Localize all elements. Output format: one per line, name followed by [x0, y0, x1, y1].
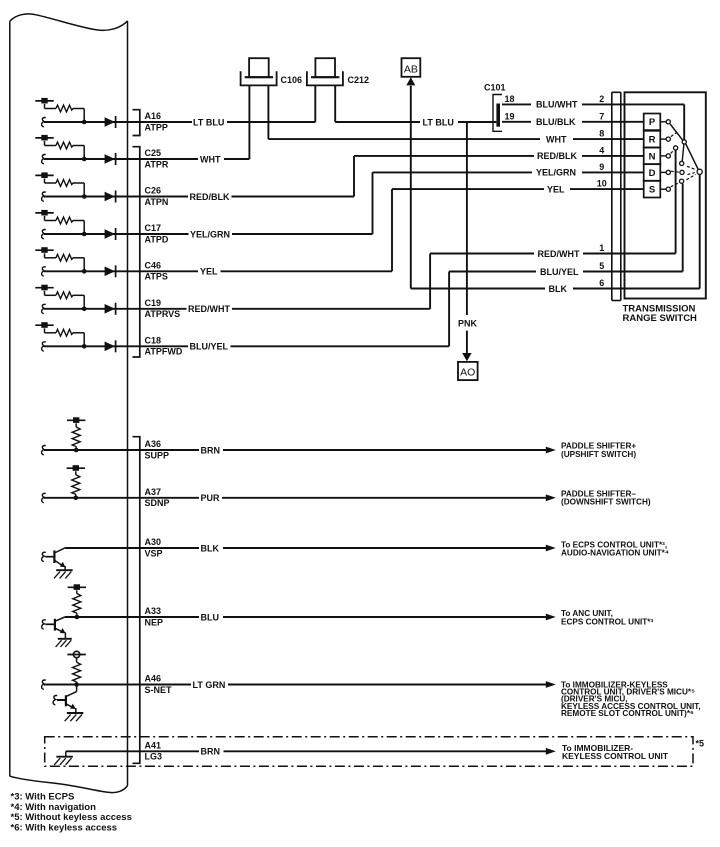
- power tab (internal pull-up supply, C46 row): [35, 249, 53, 251]
- wire BLU/BLK segment to pin 7: [582, 121, 644, 123]
- lead wire-collector (A46): [76, 685, 78, 692]
- power tab (internal pull-up supply, A16 row): [35, 100, 53, 102]
- svg-text:C19: C19: [145, 298, 162, 308]
- wire LT BLU (label to C101): [458, 121, 496, 123]
- junction dot (C18 row): [82, 344, 87, 349]
- svg-text:ECPS CONTROL UNIT*³: ECPS CONTROL UNIT*³: [561, 617, 653, 626]
- off-page connector AO box: [458, 362, 478, 380]
- svg-text:VSP: VSP: [145, 548, 163, 558]
- svg-text:SUPP: SUPP: [145, 450, 170, 460]
- wire C46 row inside ECU (squiggle continuation): [42, 267, 46, 276]
- range switch connector strip: [611, 92, 613, 300]
- lead from power tab to resistor (C19 row): [44, 291, 46, 296]
- svg-text:*6: With keyless access: *6: With keyless access: [11, 823, 118, 834]
- svg-text:YEL: YEL: [547, 184, 565, 194]
- resistor (pull-up, C17 row): [56, 217, 73, 224]
- ground (A30 emitter): [56, 569, 73, 571]
- lead resistor-wire (A36): [75, 447, 77, 448]
- wire C26 ATPN (label to riser): [232, 196, 355, 198]
- wire A30 VSP (label to arrow): [223, 547, 547, 549]
- wire PNK tee from LT BLU down: [466, 122, 468, 315]
- svg-text:KEYLESS CONTROL UNIT: KEYLESS CONTROL UNIT: [562, 751, 669, 761]
- svg-text:BLU/YEL: BLU/YEL: [540, 267, 579, 277]
- power tab (internal pull-up supply, C26 row): [35, 174, 53, 176]
- wire A37 squiggle: [42, 493, 46, 502]
- power tab (internal pull-up supply, C25 row): [35, 137, 53, 139]
- power tab (A37 row): [67, 467, 85, 469]
- lead from power tab to resistor (C26 row): [44, 179, 46, 184]
- alternate position dashes (N): [671, 150, 674, 153]
- ground (A33 emitter): [58, 638, 72, 640]
- svg-text:A36: A36: [145, 439, 162, 449]
- svg-text:N: N: [649, 151, 656, 162]
- wire C25 row inside ECU (squiggle continuation): [42, 155, 46, 164]
- wire C19 row inside ECU (squiggle continuation): [42, 304, 46, 313]
- contact circle N: [666, 154, 670, 158]
- svg-text:ATPD: ATPD: [145, 234, 169, 244]
- connector C106 left leg (WHT wire up): [248, 85, 250, 159]
- arrowhead (A37 row): [546, 494, 556, 501]
- wire PNK (label to arrow): [466, 331, 468, 354]
- range switch position box N: [644, 148, 661, 165]
- svg-text:BLU/YEL: BLU/YEL: [190, 342, 229, 352]
- resistor (A37 pull-up): [72, 475, 80, 495]
- range switch position box S: [644, 181, 661, 198]
- wire C19 ATPRVS (ECU to label): [44, 308, 187, 310]
- svg-text:5: 5: [599, 261, 604, 271]
- svg-text:RANGE SWITCH: RANGE SWITCH: [623, 313, 698, 324]
- junction dot (A33): [75, 615, 80, 620]
- lead from power tab to resistor (A16 row): [44, 104, 46, 109]
- power tab (internal pull-up supply, C19 row): [35, 287, 53, 289]
- alternate position dashes (S): [671, 183, 680, 187]
- svg-text:ATPS: ATPS: [145, 272, 168, 282]
- transistor Q (A46) emitter: [66, 704, 73, 708]
- transistor Q (A30) base bar: [53, 550, 55, 563]
- contact circle R: [666, 137, 670, 141]
- svg-text:(UPSHIFT SWITCH): (UPSHIFT SWITCH): [561, 450, 636, 459]
- svg-text:AB: AB: [404, 64, 418, 76]
- wire pin 5 riser inside switch: [682, 184, 684, 272]
- wire A46 base squiggle: [53, 696, 57, 705]
- svg-text:19: 19: [505, 111, 515, 121]
- transistor Q (A33) emitter: [55, 628, 63, 632]
- transistor Q (A33) collector: [55, 617, 65, 621]
- alternate position dashes (D): [671, 171, 679, 172]
- resistor (pull-up, C19 row): [56, 292, 73, 299]
- resistor (A46 pull-up): [73, 662, 81, 682]
- wire C17 row inside ECU (squiggle continuation): [42, 230, 46, 239]
- svg-text:BLK: BLK: [201, 543, 220, 553]
- transistor base lead (A33): [46, 623, 55, 625]
- svg-text:(DOWNSHIFT SWITCH): (DOWNSHIFT SWITCH): [561, 498, 651, 507]
- contact stub R: [660, 138, 666, 140]
- svg-text:RED/BLK: RED/BLK: [190, 192, 230, 202]
- contact stub P: [660, 121, 666, 123]
- arrowhead (A46 row): [546, 681, 556, 688]
- lead tab-resistor (A37): [75, 471, 77, 475]
- lead from power tab to resistor (C18 row): [44, 328, 46, 333]
- wire A33 squiggle: [42, 620, 46, 629]
- wire A30 VSP (ECU to label): [65, 547, 199, 549]
- option box (without keyless access) dash-dot border: [45, 737, 693, 767]
- wire A41 LG3 (ECU to label): [66, 750, 199, 752]
- transistor Q (A46) base bar: [65, 695, 67, 706]
- ECU / harness band top wavy edge: [10, 14, 128, 30]
- resistor (pull-up, C26 row): [56, 180, 73, 187]
- svg-text:A37: A37: [145, 487, 162, 497]
- switch arm drop link: [682, 144, 684, 161]
- wire BLK riser to AB connector: [410, 86, 412, 289]
- resistor (pull-up, A16 row): [56, 105, 73, 112]
- ECU pin bracket C25..C18: [133, 147, 140, 357]
- wire C18 row inside ECU (squiggle continuation): [42, 342, 46, 351]
- svg-text:C17: C17: [145, 223, 162, 233]
- svg-text:BLU/WHT: BLU/WHT: [536, 100, 578, 110]
- wire riser RED/BLK (C26 to pin 4): [353, 156, 355, 197]
- transistor base lead (A30): [46, 556, 55, 558]
- svg-text:RED/WHT: RED/WHT: [188, 304, 230, 314]
- wire BLK segment to pin 6: [573, 288, 700, 290]
- wire riser YEL/GRN (C17 to pin 9): [372, 172, 374, 234]
- sensor tab circle (A46 row): [67, 654, 85, 656]
- wire YEL segment to pin 10: [570, 188, 644, 190]
- lead emitter-ground (A33): [64, 632, 66, 638]
- svg-text:LT BLU: LT BLU: [193, 117, 224, 127]
- transmission range switch case: [625, 92, 706, 298]
- junction dot (A16 row): [82, 120, 87, 125]
- contact circle D: [666, 170, 670, 174]
- svg-text:ATPN: ATPN: [145, 197, 169, 207]
- lead from resistor to wire junction (C19 row): [73, 294, 84, 296]
- ECU pin bracket A36..A41: [133, 437, 140, 764]
- wire RED/WHT segment to pin 1: [583, 253, 676, 255]
- junction dot (C17 row): [82, 232, 87, 237]
- svg-text:7: 7: [599, 111, 604, 121]
- power tab (internal pull-up supply, C18 row): [35, 324, 53, 326]
- svg-text:NEP: NEP: [145, 617, 164, 627]
- range switch position box D: [644, 164, 661, 181]
- svg-text:8: 8: [599, 129, 604, 139]
- svg-text:LT BLU: LT BLU: [423, 117, 454, 127]
- transistor Q (A30) emitter: [54, 560, 62, 565]
- wire C25 ATPR (label to riser): [224, 158, 249, 160]
- lead from power tab to resistor (C17 row): [44, 216, 46, 221]
- arrowhead to AO: [462, 353, 471, 361]
- wire riser BLU/YEL (C18 to pin 5): [448, 272, 450, 347]
- wire C18 ATPFWD (label to riser): [231, 345, 450, 347]
- wire BLK segment to pin 6: [411, 288, 545, 290]
- svg-text:R: R: [649, 135, 656, 146]
- common contact circle (pin 6): [697, 169, 702, 174]
- wire C46 ATPS (ECU to label): [44, 270, 198, 272]
- wire A33 NEP (ECU to label): [65, 616, 199, 618]
- svg-text:BLU: BLU: [201, 612, 220, 622]
- wire YEL/GRN segment to pin 9: [582, 171, 644, 173]
- svg-text:BRN: BRN: [201, 445, 221, 455]
- junction dot (A46): [74, 682, 79, 687]
- wire A37 SDNP (ECU to label): [44, 497, 199, 499]
- svg-text:BLK: BLK: [549, 284, 568, 294]
- svg-text:A46: A46: [145, 674, 162, 684]
- arrowhead to AB: [406, 77, 415, 85]
- contact circle (D-row tap): [680, 170, 684, 174]
- ECU / harness band bottom wavy edge: [10, 776, 128, 792]
- lead from resistor to wire junction (C18 row): [73, 332, 84, 334]
- power tab (A36 row): [67, 419, 85, 421]
- wire BLU/WHT segment to pin 2: [582, 103, 684, 105]
- alternate position dashes (R): [671, 131, 679, 137]
- svg-text:PNK: PNK: [458, 319, 478, 329]
- diode (A16 row): [105, 117, 115, 127]
- contact circle (row 1 tap): [674, 146, 678, 150]
- svg-text:A41: A41: [145, 740, 162, 750]
- lead from power tab to resistor (C25 row): [44, 141, 46, 146]
- junction dot (A36): [74, 448, 79, 453]
- alternate arm dash fan 1: [687, 166, 696, 170]
- lead wire-ground (A41): [65, 751, 67, 756]
- wire BLU/WHT segment to pin 2: [502, 103, 531, 105]
- junction dot (C19 row): [82, 307, 87, 312]
- lead resistor-wire (A46): [76, 682, 78, 683]
- wire pin 1 riser inside switch: [675, 150, 677, 253]
- arrowhead (A41 row): [546, 748, 556, 755]
- wire riser YEL (C46 to pin 10): [391, 189, 393, 271]
- svg-text:BLU/BLK: BLU/BLK: [536, 117, 576, 127]
- svg-text:WHT: WHT: [546, 134, 567, 144]
- wire RED/BLK segment to pin 4: [354, 155, 534, 157]
- lead emitter-ground (A46): [75, 708, 77, 713]
- svg-text:A30: A30: [145, 537, 162, 547]
- svg-text:C25: C25: [145, 148, 162, 158]
- arrowhead (A30 row): [546, 545, 556, 552]
- ground (A46 emitter): [67, 712, 84, 714]
- lead resistor-wire (A33): [76, 613, 78, 615]
- diode (C25 row): [105, 154, 115, 164]
- svg-text:6: 6: [599, 278, 604, 288]
- connector C212 symbol: [315, 58, 335, 77]
- diode (C19 row): [105, 304, 115, 314]
- junction dot (C25 row): [82, 157, 87, 162]
- alternate arm dash fan 2: [688, 173, 695, 175]
- power tab (internal pull-up supply, C17 row): [35, 212, 53, 214]
- svg-text:YEL/GRN: YEL/GRN: [190, 229, 230, 239]
- connector C101 bracket: [493, 95, 502, 132]
- wire LT BLU (C212 to label): [335, 121, 420, 123]
- svg-text:A33: A33: [145, 606, 162, 616]
- connector C106 right leg (WHT wire down): [267, 85, 269, 139]
- lead circle-resistor (A46): [76, 658, 78, 663]
- wire BLU/YEL segment to pin 5: [583, 271, 683, 273]
- wire WHT segment to pin 8: [573, 138, 644, 140]
- ECU pin bracket A16: [133, 110, 140, 136]
- connector C101 terminal bar: [496, 104, 500, 127]
- resistor (pull-up, C18 row): [56, 329, 73, 336]
- resistor (A33 pull-up): [73, 594, 81, 614]
- wire A41 LG3 (label to arrow): [224, 750, 547, 752]
- wire RED/BLK segment to pin 4: [582, 155, 644, 157]
- junction dot (A37): [74, 496, 79, 501]
- wire C17 ATPD (label to riser): [232, 233, 373, 235]
- svg-text:BRN: BRN: [201, 747, 221, 757]
- wire A16 row inside ECU (squiggle continuation): [42, 118, 46, 127]
- contact stub D: [660, 171, 666, 173]
- connector C212 left leg (LT BLU wire up): [314, 85, 316, 122]
- svg-text:AUDIO-NAVIGATION UNIT*⁴: AUDIO-NAVIGATION UNIT*⁴: [561, 549, 669, 558]
- svg-text:P: P: [649, 117, 656, 128]
- svg-text:YEL: YEL: [200, 267, 218, 277]
- wire A46 S-NET (label to arrow): [228, 684, 547, 686]
- svg-text:LT GRN: LT GRN: [193, 680, 226, 690]
- wire C26 ATPN (ECU to label): [44, 196, 188, 198]
- power tab (A33 row): [68, 586, 86, 588]
- contact stub N: [660, 155, 666, 157]
- svg-text:10: 10: [597, 179, 607, 189]
- lead emitter-ground (A30): [64, 566, 66, 570]
- arrowhead (A36 row): [546, 447, 556, 454]
- switch arm pivot contact: [682, 140, 686, 144]
- off-page connector AB box: [402, 58, 421, 77]
- wire A46 S-NET (ECU to label): [44, 684, 191, 686]
- contact circle (mid tap): [680, 161, 684, 165]
- svg-text:PUR: PUR: [201, 493, 221, 503]
- svg-text:C26: C26: [145, 186, 162, 196]
- wire C19 ATPRVS (label to riser): [232, 308, 430, 310]
- wire A16 ATPP (label to riser): [227, 121, 315, 123]
- alternate arm dash fan 3: [687, 174, 696, 179]
- wire A46 squiggle: [42, 680, 46, 689]
- range switch position box R: [644, 131, 661, 148]
- range switch position box P: [644, 114, 661, 131]
- wire YEL/GRN segment to pin 9: [373, 171, 533, 173]
- svg-text:S-NET: S-NET: [145, 685, 173, 695]
- lead from resistor to wire junction (A16 row): [73, 108, 84, 110]
- lead tab-resistor (A33): [76, 590, 78, 593]
- svg-text:1: 1: [599, 243, 604, 253]
- wire C46 ATPS (label to riser): [221, 270, 393, 272]
- svg-text:S: S: [649, 185, 655, 196]
- svg-text:C46: C46: [145, 260, 162, 270]
- contact circle S: [666, 187, 670, 191]
- svg-text:AO: AO: [460, 366, 475, 378]
- wire C17 ATPD (ECU to label): [44, 233, 189, 235]
- svg-text:2: 2: [599, 94, 604, 104]
- wire A36 SUPP (ECU to label): [44, 449, 199, 451]
- svg-text:D: D: [649, 168, 656, 179]
- ECU / harness band left torn edge: [9, 21, 11, 776]
- svg-text:RED/WHT: RED/WHT: [538, 249, 580, 259]
- resistor (A36 pull-up): [72, 427, 80, 447]
- svg-text:ATPFWD: ATPFWD: [145, 347, 183, 357]
- lead from resistor to wire junction (C26 row): [73, 182, 84, 184]
- diode (C17 row): [105, 229, 115, 239]
- svg-text:RED/BLK: RED/BLK: [537, 151, 577, 161]
- svg-text:YEL/GRN: YEL/GRN: [536, 168, 576, 178]
- diode (C26 row): [105, 192, 115, 202]
- svg-text:ATPP: ATPP: [145, 122, 168, 132]
- svg-text:LG3: LG3: [145, 752, 163, 762]
- svg-text:C18: C18: [145, 335, 162, 345]
- wire YEL segment to pin 10: [392, 188, 544, 190]
- ground (A41 LG3): [56, 756, 73, 758]
- svg-text:18: 18: [505, 94, 515, 104]
- wire A37 SDNP (label to arrow): [222, 497, 547, 499]
- wire BLU/YEL segment to pin 5: [449, 271, 536, 273]
- wire A16 ATPP (ECU to label): [44, 121, 192, 123]
- wire A33 NEP (label to arrow): [223, 616, 547, 618]
- arrowhead (A33 row): [546, 614, 556, 621]
- wire A36 SUPP (label to arrow): [223, 449, 547, 451]
- transistor Q (A33) base bar: [54, 619, 56, 631]
- ECU / harness band right edge: [127, 21, 129, 786]
- wire BLU/BLK segment to pin 7: [502, 121, 531, 123]
- resistor (pull-up, C25 row): [56, 142, 73, 149]
- svg-text:4: 4: [599, 146, 604, 156]
- svg-text:REMOTE SLOT CONTROL UNIT)*⁶: REMOTE SLOT CONTROL UNIT)*⁶: [561, 709, 694, 718]
- transistor Q (A46) collector: [66, 692, 77, 697]
- lead from resistor to wire junction (C46 row): [73, 257, 84, 259]
- wire C26 row inside ECU (squiggle continuation): [42, 192, 46, 201]
- wire C18 ATPFWD (ECU to label): [44, 345, 188, 347]
- lead from resistor to wire junction (C17 row): [73, 220, 84, 222]
- svg-text:9: 9: [599, 162, 604, 172]
- lead tab-resistor (A36): [75, 423, 77, 427]
- switch arm lower section: [686, 144, 698, 170]
- svg-text:*5: *5: [696, 739, 705, 749]
- wire pin 2 drop to switch arm pivot: [683, 104, 685, 139]
- diode (C46 row): [105, 267, 115, 277]
- svg-text:C101: C101: [484, 83, 506, 93]
- lead from power tab to resistor (C46 row): [44, 253, 46, 257]
- contact circle (S-row tap): [680, 179, 684, 183]
- wire RED/WHT segment to pin 1: [430, 253, 534, 255]
- wire riser RED/WHT (C19 to pin 1): [429, 254, 431, 309]
- transistor base lead (A46): [57, 699, 66, 701]
- lead resistor-wire (A37): [75, 494, 77, 495]
- svg-text:A16: A16: [145, 111, 162, 121]
- svg-text:C106: C106: [281, 75, 303, 85]
- diode (C18 row): [105, 342, 115, 352]
- wire C25 ATPR (ECU to label): [44, 158, 198, 160]
- svg-text:WHT: WHT: [200, 154, 221, 164]
- contact stub S: [660, 188, 666, 190]
- junction dot (C46 row): [82, 269, 87, 274]
- connector C106 symbol: [249, 58, 269, 77]
- switch arm (P position): [670, 124, 682, 140]
- wire WHT segment to pin 8: [268, 138, 540, 140]
- contact circle P: [666, 120, 670, 124]
- junction dot (C26 row): [82, 194, 87, 199]
- svg-text:C212: C212: [348, 75, 370, 85]
- wire pin 6 riser inside switch: [699, 175, 701, 289]
- svg-text:ATPRVS: ATPRVS: [145, 309, 181, 319]
- wire A36 squiggle: [42, 446, 46, 455]
- svg-text:ATPR: ATPR: [145, 159, 169, 169]
- resistor (pull-up, C46 row): [56, 254, 73, 261]
- wire A30 base squiggle: [42, 552, 46, 561]
- transistor Q (A30) collector: [54, 548, 65, 553]
- lead from resistor to wire junction (C25 row): [73, 145, 84, 147]
- svg-text:SDNP: SDNP: [145, 498, 170, 508]
- connector C212 right leg (LT BLU wire down): [334, 85, 336, 122]
